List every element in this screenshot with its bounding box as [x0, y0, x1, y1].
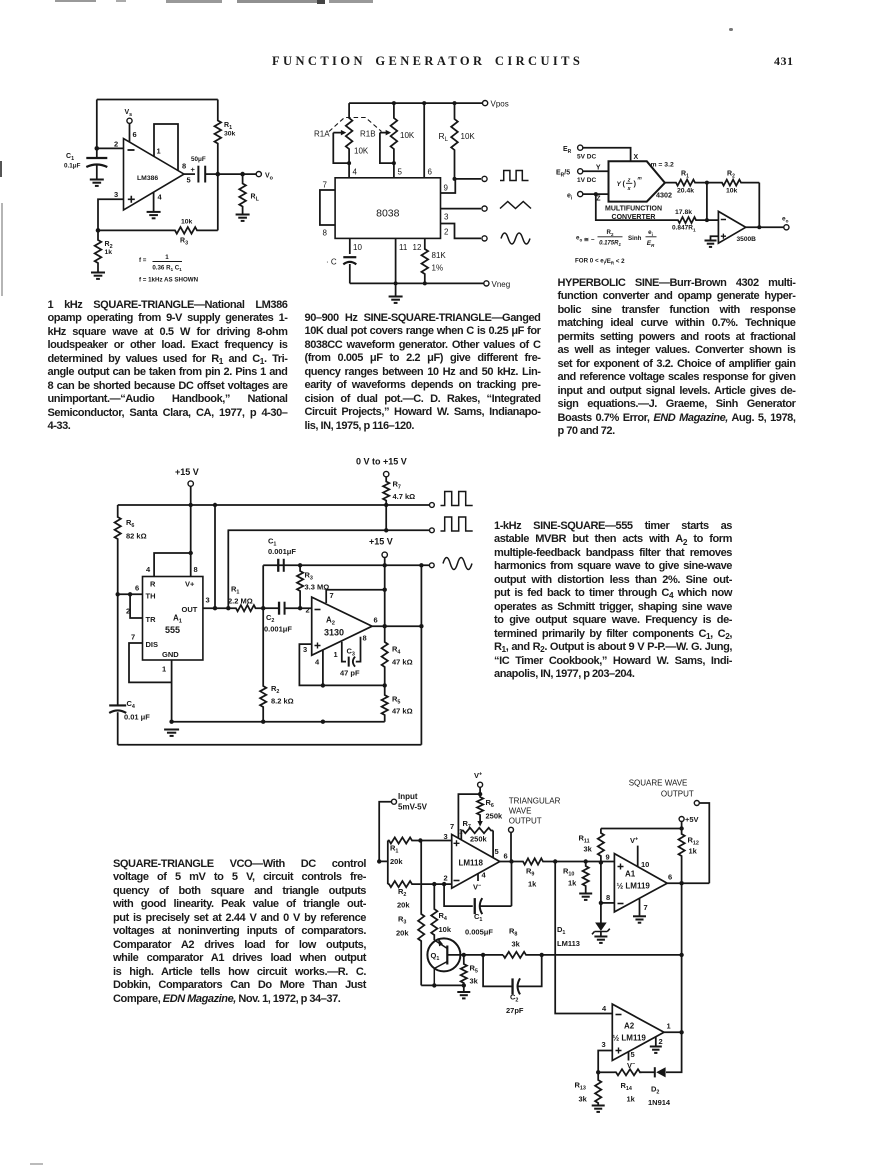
pin9 plus mark — [618, 864, 624, 870]
svg-text:3k: 3k — [584, 845, 593, 854]
svg-text:0.01 μF: 0.01 μF — [124, 713, 150, 722]
svg-text:81K: 81K — [432, 251, 447, 260]
wire +15V stem — [190, 486, 192, 505]
node gnd row 555 — [169, 720, 173, 724]
svg-text:10k: 10k — [181, 219, 193, 226]
svg-text:8038: 8038 — [376, 208, 400, 220]
svg-text:TH: TH — [146, 592, 156, 601]
node gnd row pin4 — [321, 720, 325, 724]
resistor R6 82k — [115, 505, 121, 594]
wire pins 1-8 jumper loop — [154, 124, 178, 171]
wire pin3 loop — [598, 1051, 612, 1073]
svg-text:D1: D1 — [557, 925, 565, 936]
svg-text:R2: R2 — [607, 229, 614, 237]
svg-text:FOR 0 < ei/ER < 2: FOR 0 < ei/ER < 2 — [575, 258, 625, 266]
node output — [757, 225, 761, 229]
node R5 bottom — [462, 983, 466, 987]
svg-text:z: z — [627, 178, 631, 184]
svg-text:6: 6 — [374, 616, 378, 625]
node Q1 collector — [432, 983, 436, 987]
node R4 bottom — [383, 683, 387, 687]
wire pin 10 — [349, 238, 351, 254]
node R1A wiper join — [347, 161, 351, 165]
svg-text:R4: R4 — [392, 645, 400, 656]
pin2 minus mark — [454, 880, 460, 882]
IC 8038 box — [335, 178, 440, 239]
wire V+ pin7 — [458, 787, 480, 838]
svg-text:3k: 3k — [470, 977, 479, 986]
wire A1 out row — [667, 882, 709, 884]
svg-text:4: 4 — [353, 168, 358, 177]
svg-text:250k: 250k — [486, 812, 504, 821]
transistor Q1 — [427, 938, 460, 971]
svg-text:RL: RL — [251, 194, 260, 203]
svg-text:): ) — [634, 179, 637, 188]
svg-text:R1: R1 — [231, 585, 239, 596]
svg-text:m: m — [638, 177, 643, 182]
svg-text:7: 7 — [330, 591, 334, 600]
wire pin 9 square out — [441, 179, 482, 193]
svg-text:A1: A1 — [173, 614, 183, 625]
svg-text:10K: 10K — [400, 131, 415, 140]
ground D1 — [594, 936, 607, 938]
node R1B wiper join — [392, 161, 396, 165]
ground A2 pin2 — [650, 1046, 662, 1048]
wire R2 to output — [758, 183, 760, 228]
node R7 bottom — [384, 503, 388, 507]
svg-text:8: 8 — [606, 893, 610, 902]
svg-text:9: 9 — [606, 853, 610, 862]
node pin7 supply — [383, 588, 387, 592]
svg-text:3: 3 — [444, 213, 449, 222]
wire R7 to row2 — [385, 505, 387, 530]
opamp minus mark — [315, 609, 321, 611]
svg-text:R11: R11 — [579, 834, 590, 845]
wire output pin 5 — [184, 173, 195, 175]
svg-text:A2: A2 — [624, 1022, 635, 1031]
svg-text:5: 5 — [187, 176, 191, 185]
svg-text:1: 1 — [667, 1022, 671, 1031]
svg-text:9: 9 — [444, 184, 449, 193]
resistor R3 10k — [98, 227, 218, 234]
node pin8 D1 — [599, 901, 603, 905]
node C1 row R3 — [298, 563, 302, 567]
svg-text:TRIANGULAR: TRIANGULAR — [509, 797, 561, 806]
node C1 row out riser — [419, 563, 423, 567]
wire LM118 out row — [500, 861, 521, 863]
converter U 4302 pentagon — [609, 161, 665, 201]
svg-text:4: 4 — [602, 1004, 607, 1013]
svg-text:5: 5 — [631, 1050, 635, 1059]
wire +5V stem — [681, 822, 683, 829]
ground C1 — [90, 179, 104, 181]
opamp plus mark — [721, 234, 726, 239]
svg-text:0.001μF: 0.001μF — [264, 625, 292, 634]
ground pin 11 — [395, 283, 397, 296]
wire pin 3 4 loop — [299, 644, 384, 685]
resistor R12 1k — [679, 829, 685, 884]
svg-text:47 pF: 47 pF — [340, 669, 360, 678]
icon square wave 2 — [441, 517, 473, 531]
svg-text:6: 6 — [668, 873, 672, 882]
svg-text:Input: Input — [398, 792, 418, 801]
capacitor C2 0.001uF — [263, 607, 279, 609]
capacitor C3 47pF — [348, 657, 350, 667]
capacitor C timing — [343, 256, 356, 258]
pin 5 Vminus stub — [628, 1052, 630, 1061]
wire A2 out — [664, 1031, 682, 1033]
pin3 plus mark — [454, 840, 460, 846]
svg-text:C2: C2 — [266, 613, 274, 624]
resistor R10 1k — [583, 862, 589, 894]
resistor 81K pin 12 — [422, 238, 429, 283]
svg-text:250k: 250k — [470, 835, 488, 844]
svg-text:0.36 R1 C1: 0.36 R1 C1 — [152, 265, 182, 273]
wire Vneg rail — [350, 282, 484, 284]
svg-text:+15 V: +15 V — [175, 467, 199, 477]
icon square wave — [500, 171, 529, 181]
wire pin 7 A2 — [326, 590, 385, 603]
wire A2 out row — [372, 625, 421, 627]
svg-text:5mV-5V: 5mV-5V — [398, 803, 428, 812]
svg-text:5: 5 — [398, 168, 403, 177]
svg-text:LM113: LM113 — [557, 939, 580, 948]
node A1 out R12 — [679, 881, 683, 885]
svg-text:ei: ei — [567, 192, 573, 201]
node out-row riser top — [213, 503, 217, 507]
capacitor C1 — [96, 148, 98, 157]
resistor R2 8.2k — [260, 608, 266, 722]
resistor 17.8k — [677, 217, 707, 223]
svg-text:Q1: Q1 — [431, 951, 440, 962]
svg-text:20k: 20k — [390, 857, 403, 866]
node gnd row R2 — [261, 720, 265, 724]
wiper arm R1A — [333, 133, 349, 164]
node pin 11 ground — [394, 281, 398, 285]
capacitor C1 0.001uF — [262, 565, 264, 608]
svg-text:R9: R9 — [526, 867, 534, 878]
node out riser2 — [226, 606, 230, 610]
svg-text:11: 11 — [399, 243, 408, 252]
svg-text:R10: R10 — [563, 867, 574, 878]
wire top feedback rail — [97, 99, 218, 101]
svg-text:x: x — [626, 186, 631, 192]
svg-text:A1: A1 — [625, 870, 636, 879]
wire pin 3 triangle out — [441, 208, 482, 210]
svg-text:R4: R4 — [439, 911, 447, 922]
svg-text:6: 6 — [135, 584, 139, 593]
pin4 minus mark — [616, 1014, 622, 1016]
svg-text:C2: C2 — [510, 993, 518, 1004]
svg-text:R1A: R1A — [314, 130, 330, 139]
resistor R6 250k — [477, 794, 483, 822]
wire right riser — [420, 565, 422, 745]
wire pin8 stub — [601, 902, 615, 904]
ground opamp plus — [705, 240, 717, 242]
svg-text:eo: eo — [782, 216, 789, 224]
svg-text:RL: RL — [439, 131, 449, 143]
svg-text:0.175R1: 0.175R1 — [599, 241, 621, 248]
wire pin 6 supply — [129, 123, 131, 142]
node R1 right — [418, 838, 422, 842]
wire output to Vo — [218, 173, 256, 175]
svg-text:8: 8 — [194, 565, 198, 574]
terminal sine output — [482, 236, 487, 241]
wire pin8 stub C3 — [356, 637, 361, 662]
svg-text:3: 3 — [602, 1040, 606, 1049]
node base C2 — [481, 953, 485, 957]
wire out row to A1 — [555, 861, 614, 863]
svg-text:Vpos: Vpos — [491, 100, 509, 109]
svg-text:R3: R3 — [180, 238, 188, 247]
node pin6 top — [422, 101, 426, 105]
resistor R1 2.2M — [235, 605, 263, 611]
svg-text:· C: · C — [326, 258, 337, 267]
wire C1 feedback row — [263, 564, 429, 566]
svg-text:20k: 20k — [396, 929, 409, 938]
wire right column — [681, 883, 683, 1032]
pin 4 Vminus — [477, 873, 479, 881]
svg-text:1k: 1k — [528, 880, 537, 889]
svg-text:4: 4 — [482, 871, 487, 880]
icon sine wave — [501, 233, 530, 244]
svg-text:TR: TR — [146, 615, 157, 624]
resistor R5 3k — [461, 955, 467, 986]
svg-text:82 kΩ: 82 kΩ — [126, 532, 147, 541]
svg-text:V+: V+ — [474, 771, 482, 780]
svg-text:3k: 3k — [512, 940, 521, 949]
svg-text:47 kΩ: 47 kΩ — [392, 707, 413, 716]
resistor R1 20.4k — [665, 180, 707, 186]
op-amp U1 LM386 triangle — [124, 139, 185, 211]
svg-text:R6: R6 — [126, 518, 134, 529]
potentiometer R1A 10K — [346, 103, 353, 163]
node opamp minus — [705, 218, 709, 222]
svg-text:3: 3 — [303, 645, 307, 654]
wire +15V A2 stem — [384, 558, 386, 566]
svg-text:2: 2 — [114, 140, 118, 149]
svg-text:0 V to +15 V: 0 V to +15 V — [356, 457, 407, 467]
svg-text:1k: 1k — [689, 847, 698, 856]
pin8 minus mark — [618, 903, 624, 905]
terminal square output — [482, 176, 487, 181]
terminal eo — [784, 225, 789, 230]
node R2 junction — [96, 228, 101, 233]
svg-text:1%: 1% — [432, 264, 444, 273]
node R1 C1 junction — [261, 606, 265, 610]
terminal square out 2 — [430, 528, 435, 533]
potentiometer R1B 10K — [391, 103, 398, 163]
icon triangle wave — [500, 202, 531, 209]
node R8 right — [540, 953, 544, 957]
resistor R2 20k — [388, 881, 421, 887]
resistor R9 1k — [521, 858, 555, 864]
wire pin 1 — [171, 660, 173, 722]
node pin2/C1 junction — [95, 146, 100, 151]
svg-text:7: 7 — [323, 181, 328, 190]
svg-text:eo ≅ −: eo ≅ − — [576, 235, 595, 244]
svg-text:1: 1 — [157, 147, 161, 156]
svg-text:555: 555 — [165, 625, 180, 635]
pin 2 ground stub — [655, 1037, 657, 1047]
node V+ R6 — [478, 792, 482, 796]
svg-text:10K: 10K — [461, 132, 476, 141]
terminal triangular out — [509, 827, 514, 832]
wire Vpos top rail — [349, 102, 482, 104]
node right column R8 — [679, 953, 683, 957]
resistor R2 10k — [707, 180, 759, 186]
wire OUT pin3 row — [203, 607, 235, 609]
terminal triangle output — [482, 206, 487, 211]
wire pin 4 — [348, 163, 350, 178]
terminal square wave out — [694, 801, 699, 806]
svg-text:0.005μF: 0.005μF — [465, 928, 493, 937]
svg-text:R3: R3 — [398, 915, 406, 926]
resistor R8 3k — [503, 952, 542, 958]
icon sine wave out — [443, 558, 472, 570]
wire riser1 — [214, 505, 216, 608]
svg-text:10: 10 — [353, 243, 362, 252]
svg-text:4: 4 — [158, 193, 163, 202]
svg-text:3: 3 — [206, 596, 210, 605]
terminal +15V A2 — [382, 552, 387, 557]
IC A1 555 box — [143, 577, 203, 661]
svg-text:f =: f = — [139, 257, 147, 264]
svg-text:ER/5: ER/5 — [556, 170, 570, 179]
pin 7 ground stub — [639, 899, 641, 917]
svg-text:47 kΩ: 47 kΩ — [392, 658, 413, 667]
svg-text:R7: R7 — [463, 819, 471, 830]
svg-text:1k: 1k — [105, 249, 113, 256]
svg-text:1: 1 — [162, 665, 166, 674]
svg-text:X: X — [634, 154, 639, 161]
svg-text:OUTPUT: OUTPUT — [661, 790, 694, 799]
svg-text:R3: R3 — [305, 571, 313, 582]
node R10 top — [584, 859, 588, 863]
node pin4 loop — [321, 683, 325, 687]
terminal +5V — [679, 817, 684, 822]
resistor R4 10k — [431, 884, 437, 940]
wire input tee — [379, 841, 388, 885]
wire bottom feedback — [217, 174, 219, 230]
svg-text:+15 V: +15 V — [369, 537, 393, 547]
capacitor C2 27pF loop — [483, 955, 542, 987]
wire plus input ground — [711, 236, 719, 240]
svg-text:OUT: OUT — [182, 605, 198, 614]
wire output eo — [746, 226, 784, 228]
node R11 row9 — [599, 860, 603, 864]
svg-text:1: 1 — [165, 254, 169, 261]
svg-text:8.2 kΩ: 8.2 kΩ — [271, 697, 294, 706]
svg-text:12: 12 — [413, 243, 422, 252]
svg-text:½ LM119: ½ LM119 — [617, 882, 651, 891]
wire Q1 base row — [447, 954, 503, 956]
wire pin 3 input — [98, 199, 124, 230]
diode D2 1N914 — [656, 1067, 665, 1077]
wiper arm R1B — [380, 133, 394, 164]
resistor R5 47k — [382, 685, 388, 721]
svg-text:7: 7 — [131, 633, 135, 642]
svg-text:3500B: 3500B — [737, 236, 757, 243]
ground pin 4 — [147, 211, 161, 213]
pin 10 V+ stub — [637, 846, 639, 867]
svg-text:5V DC: 5V DC — [577, 154, 596, 161]
svg-text:3k: 3k — [579, 1095, 588, 1104]
terminal Vpos — [483, 101, 488, 106]
svg-text:8: 8 — [363, 634, 367, 643]
svg-text:½ LM119: ½ LM119 — [613, 1034, 647, 1043]
ground R2 — [91, 272, 105, 274]
ground R5 — [463, 985, 465, 992]
wire pin 2 sine out — [441, 224, 482, 239]
svg-text:20.4k: 20.4k — [677, 188, 694, 195]
svg-text:2: 2 — [306, 606, 310, 615]
svg-text:2: 2 — [444, 874, 448, 883]
svg-text:20k: 20k — [397, 901, 410, 910]
node R13 R14 — [596, 1070, 600, 1074]
svg-text:10k: 10k — [439, 925, 452, 934]
svg-text:4.7 kΩ: 4.7 kΩ — [393, 492, 416, 501]
svg-text:50μF: 50μF — [191, 156, 206, 163]
node triangle out — [509, 859, 513, 863]
svg-text:4: 4 — [146, 565, 151, 574]
svg-text:R13: R13 — [575, 1081, 586, 1092]
svg-text:R2: R2 — [727, 171, 735, 180]
svg-text:V−: V− — [627, 1061, 635, 1070]
wire R11 to pin8 — [600, 863, 602, 903]
op-amp A2 LM119 triangle — [612, 1004, 664, 1060]
node RL top — [453, 101, 457, 105]
wire Z input — [583, 193, 609, 195]
svg-text:C4: C4 — [127, 699, 135, 710]
svg-text:30k: 30k — [224, 131, 236, 138]
wire D2 row — [639, 1032, 681, 1072]
wire pin 7 DIS loop — [129, 643, 172, 682]
opamp plus mark — [315, 643, 321, 649]
svg-text:V−: V− — [473, 883, 481, 892]
op-amp A2 3130 triangle — [312, 597, 372, 655]
wire junction vertical — [707, 183, 719, 221]
ground R10 — [579, 893, 592, 895]
svg-text:R2: R2 — [271, 684, 279, 695]
wire pin1 stub C3 — [342, 642, 346, 662]
svg-text:Z: Z — [596, 196, 601, 203]
svg-text:D2: D2 — [651, 1085, 659, 1096]
node out riser right — [419, 624, 423, 628]
node A2 out — [679, 1030, 683, 1034]
node pin 9 — [453, 177, 457, 181]
svg-text:3: 3 — [114, 190, 118, 199]
wire R2 to pin2 — [420, 883, 451, 885]
wire +5V rail — [601, 828, 682, 830]
node base R5 — [462, 953, 466, 957]
svg-text:R1B: R1B — [360, 130, 376, 139]
svg-text:1k: 1k — [568, 879, 577, 888]
svg-text:R1: R1 — [681, 171, 689, 180]
resistor R4 47k — [382, 626, 388, 685]
svg-text:5: 5 — [495, 847, 499, 856]
svg-text:SQUARE WAVE: SQUARE WAVE — [629, 779, 688, 788]
svg-text:OUTPUT: OUTPUT — [509, 817, 542, 826]
node +5V rail — [679, 826, 683, 830]
svg-text:R6: R6 — [486, 798, 494, 809]
wire main top rail — [118, 504, 430, 506]
svg-text:R5: R5 — [470, 964, 478, 975]
ground R13 — [592, 1105, 605, 1107]
node output/R1 — [216, 172, 221, 177]
node R1 out — [705, 181, 709, 185]
svg-text:8: 8 — [182, 162, 186, 171]
